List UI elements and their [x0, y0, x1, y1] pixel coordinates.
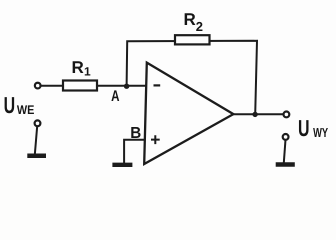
svg-text:2: 2 — [196, 19, 203, 34]
svg-text:R: R — [72, 58, 84, 77]
svg-text:B: B — [130, 125, 141, 142]
svg-text:U: U — [298, 115, 310, 141]
svg-text:WE: WE — [17, 103, 35, 117]
svg-text:R: R — [184, 10, 196, 29]
svg-text:A: A — [111, 88, 119, 105]
svg-text:WY: WY — [313, 125, 328, 140]
svg-text:U: U — [4, 92, 16, 118]
svg-text:1: 1 — [84, 65, 91, 79]
